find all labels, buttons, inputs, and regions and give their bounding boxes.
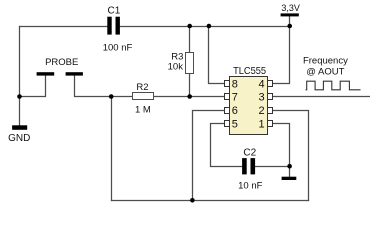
svg-text:5: 5	[232, 118, 238, 130]
pin 2	[258, 105, 272, 117]
pin 5	[225, 118, 238, 130]
probe pads PROBE	[37, 57, 83, 75]
capacitor C1	[103, 5, 133, 53]
wire bottom rail	[112, 200, 309, 202]
wire probe node drop	[111, 97, 113, 201]
svg-text:4: 4	[258, 79, 264, 91]
pin 8	[225, 79, 238, 91]
svg-text:TLC555: TLC555	[233, 66, 266, 77]
pin 3	[258, 91, 272, 103]
wire top rail left of C1	[20, 26, 108, 28]
pin 1	[258, 118, 272, 130]
resistor R3	[168, 52, 194, 74]
node top rail / R3	[187, 24, 192, 29]
svg-text:Frequency: Frequency	[303, 56, 348, 67]
svg-text:2: 2	[258, 105, 264, 117]
svg-text:6: 6	[232, 105, 238, 117]
wire pin 2 branch	[272, 111, 308, 201]
wire R3 top lead	[189, 27, 191, 53]
svg-text:1: 1	[258, 118, 264, 130]
svg-text:8: 8	[232, 79, 238, 91]
wire pin 3 output	[272, 96, 370, 98]
capacitor C2	[238, 148, 262, 192]
svg-text:3,3V: 3,3V	[281, 3, 300, 13]
svg-text:100 nF: 100 nF	[103, 43, 133, 54]
node top rail / supply	[287, 24, 292, 29]
wire pin 5 to C2	[211, 124, 243, 167]
wire C2 right plate to ground node	[255, 166, 289, 168]
wire left bus vertical	[19, 27, 21, 126]
ground GND	[8, 125, 30, 144]
svg-text:@ AOUT: @ AOUT	[306, 66, 344, 77]
wire left bus to probe left pad	[20, 76, 46, 97]
square wave symbol	[306, 81, 361, 90]
wire R3 bottom lead	[189, 74, 191, 97]
ground bar at C2	[282, 177, 297, 180]
op-amp U1 TLC555 body	[230, 66, 268, 135]
supply 3,3V	[281, 3, 300, 16]
node left bus / probe	[17, 94, 22, 99]
wire supply drop to pin 4	[272, 16, 289, 83]
resistor R2	[133, 82, 154, 115]
node bottom rail / pin 6	[190, 198, 195, 203]
svg-text:C1: C1	[108, 5, 121, 16]
wire probe right pad to R2	[75, 76, 133, 97]
wire ground node stub	[289, 167, 291, 177]
svg-text:1 M: 1 M	[135, 104, 151, 115]
svg-text:PROBE: PROBE	[45, 57, 78, 68]
wire pin 8 supply branch	[209, 27, 225, 84]
wire top rail right of C1	[120, 26, 290, 28]
node R3 / pin 7	[187, 94, 192, 99]
svg-text:7: 7	[232, 91, 238, 103]
svg-text:R2: R2	[136, 82, 148, 93]
svg-text:10 nF: 10 nF	[238, 180, 262, 191]
pin 6	[225, 105, 238, 117]
svg-text:GND: GND	[8, 133, 30, 144]
node top rail / pin 8 branch	[207, 24, 212, 29]
wire pin 1 branch	[272, 124, 289, 167]
svg-text:3: 3	[258, 91, 264, 103]
wire R2 to pin 7	[154, 96, 225, 98]
node probe / R2	[109, 94, 114, 99]
pin 4	[258, 79, 272, 91]
node C2 / pin 1 / ground	[287, 164, 292, 169]
pin 7	[225, 91, 238, 103]
svg-text:C2: C2	[243, 148, 256, 159]
svg-text:10k: 10k	[168, 61, 184, 72]
wire pin 6 branch	[193, 111, 225, 201]
label Frequency @ AOUT	[303, 56, 348, 78]
